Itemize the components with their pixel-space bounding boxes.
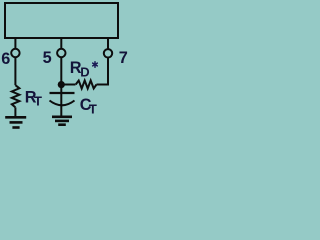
pin 5 terminal circle <box>57 49 65 57</box>
pin 6 wire <box>14 38 16 49</box>
wire pin5 down to ground (through capacitor) <box>60 57 62 116</box>
svg-text:T: T <box>89 101 97 116</box>
svg-text:D: D <box>80 65 89 80</box>
asterisk <box>93 62 98 67</box>
node junction dot <box>58 81 65 88</box>
wire pin6 to RT <box>14 57 16 85</box>
pin 5 wire <box>60 38 62 49</box>
resistor RT zigzag <box>12 85 20 107</box>
pin 7 terminal circle <box>104 49 112 57</box>
pin 7 wire <box>107 38 109 49</box>
background <box>0 0 128 138</box>
capacitor CT top plate <box>50 92 75 94</box>
IC body U1 <box>5 3 118 38</box>
svg-text:5: 5 <box>43 49 52 67</box>
ground (CT) <box>52 117 72 125</box>
capacitor CT curved plate <box>50 101 75 106</box>
wire RT to ground <box>14 107 16 116</box>
svg-text:T: T <box>34 93 42 108</box>
svg-text:6: 6 <box>1 50 10 68</box>
svg-text:7: 7 <box>119 49 128 67</box>
pin 6 terminal circle <box>11 49 19 57</box>
ground (RT) <box>5 117 26 127</box>
wire RD to pin7 <box>97 57 109 84</box>
resistor RD zigzag <box>76 81 97 89</box>
wire node to RD <box>61 84 75 86</box>
